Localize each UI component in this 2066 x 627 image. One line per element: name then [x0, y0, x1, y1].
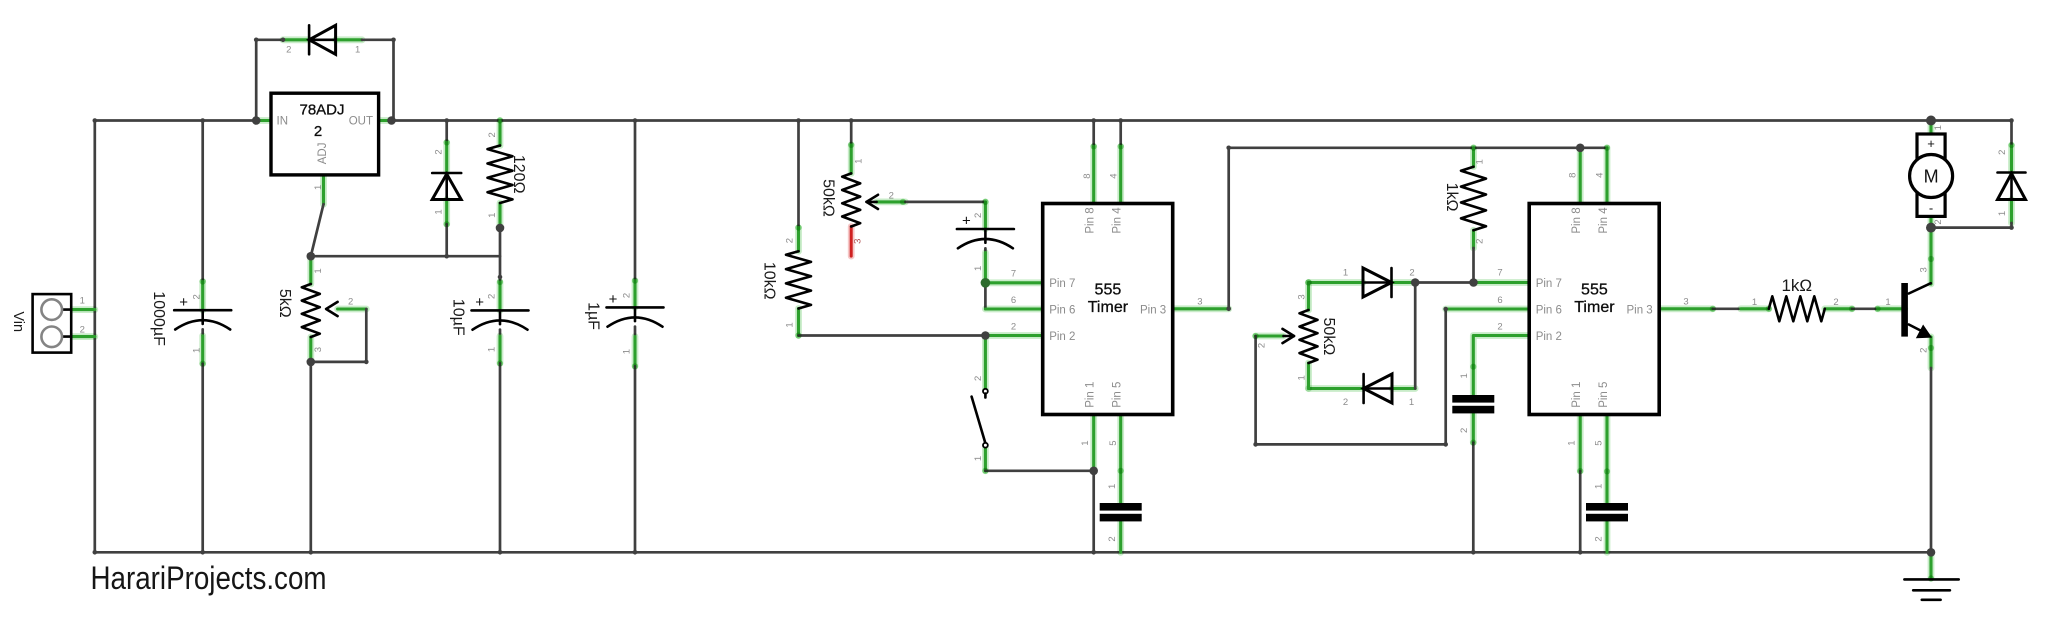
svg-text:2: 2 — [1343, 397, 1348, 408]
wire — [307, 337, 314, 362]
svg-text:1: 1 — [487, 213, 498, 218]
svg-text:50kΩ: 50kΩ — [819, 179, 836, 217]
wire — [1229, 146, 1607, 149]
wire — [392, 119, 1932, 122]
wire — [984, 248, 987, 252]
svg-text:1: 1 — [434, 209, 445, 214]
wire — [1928, 228, 1935, 284]
svg-text:2: 2 — [286, 45, 291, 56]
wire — [71, 306, 95, 313]
svg-text:1000µF: 1000µF — [150, 291, 167, 346]
IC U3 555 Timer — [1497, 173, 1688, 446]
wire — [1305, 283, 1312, 311]
wire — [1117, 146, 1124, 203]
wire — [445, 224, 448, 256]
wire — [1474, 279, 1530, 286]
svg-text:-: - — [1929, 201, 1933, 216]
junction — [633, 118, 638, 123]
svg-text:1: 1 — [355, 45, 360, 56]
svg-text:2: 2 — [973, 376, 984, 381]
wire — [1446, 306, 1530, 313]
svg-text:OUT: OUT — [349, 115, 373, 127]
wire — [1256, 333, 1283, 340]
svg-text:4: 4 — [1594, 173, 1605, 178]
potentiometer RV1 5kΩ — [276, 268, 353, 352]
junction — [1927, 548, 1936, 557]
junction — [254, 38, 259, 43]
diode D3 — [1343, 267, 1415, 297]
wire — [1604, 521, 1611, 552]
switch S1 — [972, 376, 988, 461]
wire — [256, 40, 283, 121]
wire — [1878, 305, 1902, 312]
junction — [387, 116, 396, 125]
svg-text:M: M — [1924, 167, 1939, 187]
svg-text:+: + — [179, 294, 188, 311]
svg-text:1: 1 — [621, 349, 632, 354]
svg-text:2: 2 — [80, 324, 85, 335]
wire — [201, 329, 204, 335]
svg-text:1: 1 — [973, 456, 984, 461]
wire — [307, 256, 314, 284]
transistor Q1 — [1885, 267, 1930, 353]
wire — [634, 327, 637, 337]
svg-text:+: + — [962, 213, 971, 230]
junction — [93, 118, 98, 123]
svg-text:1: 1 — [1933, 125, 1944, 130]
svg-text:1: 1 — [1107, 484, 1118, 489]
svg-text:IN: IN — [277, 115, 289, 127]
svg-text:Pin 6: Pin 6 — [1536, 304, 1562, 316]
svg-text:6: 6 — [1011, 295, 1016, 306]
wire — [1309, 279, 1364, 286]
svg-text:+: + — [1927, 136, 1935, 151]
junction — [1253, 442, 1258, 447]
svg-text:Pin 4: Pin 4 — [1112, 207, 1124, 234]
IC U2 555 Timer — [1011, 173, 1203, 445]
wire — [199, 336, 206, 364]
junction — [796, 118, 801, 123]
svg-text:1: 1 — [784, 322, 795, 327]
svg-text:2: 2 — [487, 132, 498, 137]
regulator U1 78ADJ — [271, 93, 379, 190]
wire — [634, 366, 637, 552]
svg-text:1: 1 — [1752, 297, 1757, 308]
wire — [1090, 415, 1097, 471]
junction — [1443, 307, 1448, 312]
svg-text:1: 1 — [1409, 397, 1414, 408]
junction — [307, 252, 316, 261]
svg-text:1kΩ: 1kΩ — [1781, 276, 1812, 295]
svg-text:555: 555 — [1581, 281, 1608, 298]
svg-text:2: 2 — [348, 297, 353, 308]
svg-text:+: + — [609, 291, 618, 308]
svg-text:3: 3 — [1297, 294, 1308, 299]
wire — [1173, 305, 1229, 312]
svg-text:78ADJ: 78ADJ — [299, 102, 344, 119]
wire — [1470, 230, 1477, 248]
svg-text:50kΩ: 50kΩ — [1320, 318, 1337, 356]
wire — [850, 121, 853, 145]
wire — [799, 334, 986, 337]
wire — [982, 447, 989, 471]
junction — [981, 278, 991, 288]
wire — [1415, 281, 1473, 284]
junction — [200, 550, 205, 555]
junction — [1226, 307, 1231, 312]
svg-text:Pin 2: Pin 2 — [1049, 331, 1075, 343]
ground — [1904, 579, 1958, 599]
wire — [201, 121, 204, 282]
wire — [256, 117, 271, 124]
wire — [985, 332, 1042, 339]
svg-text:1: 1 — [973, 266, 984, 271]
svg-text:5kΩ: 5kΩ — [276, 289, 293, 318]
svg-text:2: 2 — [1256, 343, 1267, 348]
svg-text:Pin 1: Pin 1 — [1085, 382, 1097, 408]
svg-text:Pin 2: Pin 2 — [1536, 331, 1562, 343]
junction — [1471, 550, 1476, 555]
junction — [1226, 146, 1231, 151]
svg-text:2: 2 — [1475, 239, 1486, 244]
wire — [283, 36, 309, 43]
wire — [1117, 415, 1124, 504]
svg-text:1: 1 — [1080, 440, 1091, 445]
svg-text:1: 1 — [853, 159, 864, 164]
svg-text:7: 7 — [1497, 267, 1502, 278]
resistor R2 10kΩ — [760, 238, 811, 328]
wire — [1579, 471, 1582, 552]
svg-text:2: 2 — [1409, 267, 1414, 278]
svg-text:120Ω: 120Ω — [510, 155, 527, 194]
svg-text:2: 2 — [486, 294, 497, 299]
wire — [795, 309, 802, 336]
svg-text:2: 2 — [621, 293, 632, 298]
svg-text:2: 2 — [314, 123, 322, 140]
svg-text:3: 3 — [1919, 267, 1930, 272]
wire — [1305, 363, 1312, 389]
wire — [309, 362, 312, 552]
diode D4 — [1343, 374, 1414, 408]
wire — [982, 202, 989, 229]
resistor R3 1kΩ — [1443, 159, 1486, 244]
wire — [338, 306, 367, 313]
svg-text:Pin 7: Pin 7 — [1049, 278, 1075, 290]
wire — [379, 117, 392, 124]
svg-text:1: 1 — [1343, 267, 1348, 278]
svg-text:10kΩ: 10kΩ — [760, 262, 777, 300]
wire — [445, 121, 448, 143]
potentiometer RV3 50kΩ — [1256, 294, 1337, 380]
wire — [1470, 148, 1477, 167]
svg-text:2: 2 — [889, 191, 894, 202]
svg-text:Pin 8: Pin 8 — [1571, 207, 1583, 233]
svg-text:2: 2 — [1459, 428, 1470, 433]
capacitor C6 — [1452, 373, 1494, 433]
label HarariProjects.com — [91, 560, 327, 596]
potentiometer RV2 50kΩ — [819, 159, 894, 244]
wire — [632, 281, 639, 308]
svg-text:1: 1 — [1885, 297, 1890, 308]
wire — [1256, 309, 1446, 444]
junction — [1411, 278, 1420, 287]
svg-text:4: 4 — [1109, 173, 1120, 178]
svg-text:Pin 7: Pin 7 — [1536, 278, 1562, 290]
wire — [795, 228, 802, 252]
wire — [311, 255, 500, 258]
capacitor C2 10µF — [450, 294, 529, 352]
wire — [1472, 443, 1475, 553]
svg-text:1kΩ: 1kΩ — [1443, 183, 1460, 212]
svg-text:5: 5 — [1593, 440, 1604, 445]
wire — [1470, 413, 1477, 442]
svg-text:2: 2 — [434, 149, 445, 154]
svg-text:6: 6 — [1497, 295, 1502, 306]
svg-text:Timer: Timer — [1088, 299, 1129, 316]
resistor R1 120Ω — [487, 132, 527, 218]
svg-text:Pin 8: Pin 8 — [1085, 207, 1097, 233]
svg-text:1: 1 — [313, 268, 324, 273]
junction — [633, 550, 638, 555]
wire — [2008, 146, 2015, 173]
wire — [1928, 121, 1935, 134]
wire — [1659, 305, 1713, 312]
junction — [309, 550, 314, 555]
junction — [391, 38, 396, 43]
svg-text:1: 1 — [1567, 440, 1578, 445]
svg-text:2: 2 — [1933, 219, 1944, 224]
svg-text:1: 1 — [1997, 211, 2008, 216]
wire — [1604, 415, 1611, 504]
svg-text:8: 8 — [1082, 173, 1093, 178]
junction — [1091, 118, 1096, 123]
wire — [985, 469, 1093, 472]
svg-text:1: 1 — [1459, 373, 1470, 378]
diode D2 — [432, 149, 461, 214]
wire — [497, 203, 504, 228]
svg-text:1µF: 1µF — [584, 302, 601, 330]
wire — [1473, 336, 1529, 396]
wire — [499, 330, 502, 336]
wire — [982, 336, 989, 389]
svg-text:3: 3 — [313, 347, 324, 352]
svg-text:2: 2 — [1107, 536, 1118, 541]
diode D1 — [286, 25, 360, 55]
wire — [984, 283, 987, 309]
junction — [498, 275, 503, 280]
svg-text:10µF: 10µF — [450, 299, 467, 336]
wire — [336, 36, 362, 43]
wire — [985, 279, 1042, 286]
junction — [2009, 118, 2014, 123]
junction — [281, 38, 286, 43]
svg-text:2: 2 — [784, 238, 795, 243]
junction — [1578, 550, 1583, 555]
junction — [2009, 225, 2014, 230]
svg-text:Pin 1: Pin 1 — [1571, 382, 1583, 408]
wire — [848, 227, 855, 257]
svg-text:2: 2 — [1833, 297, 1838, 308]
wire — [1392, 279, 1416, 286]
wire — [985, 306, 1042, 313]
svg-text:555: 555 — [1095, 281, 1122, 298]
wire — [1930, 368, 1933, 552]
junction — [1469, 278, 1478, 287]
svg-text:1: 1 — [1594, 484, 1605, 489]
svg-text:1: 1 — [486, 347, 497, 352]
wire — [1092, 121, 1095, 147]
svg-text:7: 7 — [1011, 269, 1016, 280]
wire — [1741, 305, 1769, 312]
svg-text:Pin 3: Pin 3 — [1140, 304, 1166, 316]
wire — [905, 201, 985, 204]
wire — [797, 121, 800, 228]
junction — [444, 254, 449, 259]
svg-text:Pin 5: Pin 5 — [1112, 382, 1124, 408]
junction — [364, 360, 369, 365]
wire endpoint highlights — [200, 117, 2015, 581]
wire — [982, 253, 989, 283]
capacitor C1 1000µF — [150, 291, 231, 353]
junction — [93, 550, 98, 555]
wire — [95, 119, 256, 122]
motor M1 — [1910, 125, 1953, 225]
junction — [444, 118, 449, 123]
svg-text:2: 2 — [1011, 321, 1016, 332]
connector J1 Vin — [10, 294, 85, 353]
junction — [498, 550, 503, 555]
junction — [200, 118, 205, 123]
junction — [981, 331, 990, 340]
svg-text:1: 1 — [313, 185, 324, 190]
svg-text:1: 1 — [1297, 375, 1308, 380]
svg-text:Timer: Timer — [1574, 299, 1615, 316]
wire — [1309, 385, 1364, 392]
wire — [71, 333, 95, 340]
junction — [1576, 144, 1585, 153]
wire — [311, 309, 367, 362]
junction — [307, 358, 316, 367]
svg-text:2: 2 — [191, 294, 202, 299]
svg-text:+: + — [475, 294, 484, 311]
wire — [199, 282, 206, 311]
wire — [1119, 121, 1122, 147]
capacitor C5 — [1100, 484, 1142, 542]
junction — [1089, 467, 1098, 476]
svg-text:3: 3 — [852, 239, 863, 244]
wire — [497, 121, 504, 146]
wire — [443, 200, 450, 225]
wire — [1928, 337, 1935, 368]
junction — [1443, 442, 1448, 447]
wire — [1852, 307, 1878, 310]
svg-text:1: 1 — [80, 295, 85, 306]
svg-text:2: 2 — [1997, 150, 2008, 155]
junction — [1091, 550, 1096, 555]
capacitor C4 — [957, 213, 1014, 271]
svg-text:Pin 3: Pin 3 — [1626, 304, 1652, 316]
wire — [1577, 415, 1584, 472]
wire — [95, 551, 1931, 554]
wire — [497, 282, 504, 310]
svg-text:Pin 6: Pin 6 — [1049, 304, 1075, 316]
wire — [1092, 471, 1095, 553]
junction — [849, 118, 854, 123]
capacitor C7 — [1586, 484, 1628, 542]
wire — [499, 363, 502, 552]
svg-text:ADJ: ADJ — [317, 143, 329, 165]
capacitor C3 1µF — [584, 291, 663, 354]
wire — [1931, 121, 2012, 146]
wire — [443, 142, 450, 173]
wire — [1414, 283, 1417, 389]
svg-text:3: 3 — [1683, 297, 1688, 308]
wire — [362, 40, 394, 121]
wire — [1117, 521, 1124, 552]
wire — [499, 228, 502, 282]
svg-text:Pin 4: Pin 4 — [1598, 207, 1610, 234]
svg-text:HarariProjects.com: HarariProjects.com — [91, 560, 327, 596]
wire — [311, 204, 324, 256]
wire — [1825, 305, 1852, 312]
wire — [320, 175, 327, 204]
wire — [93, 121, 96, 553]
svg-text:1: 1 — [191, 348, 202, 353]
junction — [1926, 116, 1936, 126]
wire — [1713, 307, 1741, 310]
diode D5 — [1997, 150, 2025, 217]
resistor R4 1kΩ — [1752, 276, 1839, 321]
svg-text:8: 8 — [1568, 173, 1579, 178]
junction — [1926, 223, 1936, 233]
svg-text:3: 3 — [1197, 297, 1202, 308]
wire — [1577, 148, 1584, 204]
junction — [1118, 118, 1123, 123]
wire — [2008, 200, 2015, 224]
svg-text:2: 2 — [1497, 321, 1502, 332]
wire — [1392, 385, 1415, 392]
wire — [877, 198, 906, 205]
svg-text:1: 1 — [1475, 159, 1486, 164]
wire — [634, 121, 637, 281]
junction — [496, 224, 505, 233]
wire — [1604, 148, 1611, 204]
wire — [1090, 146, 1097, 203]
wire — [1928, 552, 1935, 578]
wire — [201, 364, 204, 553]
svg-text:5: 5 — [1108, 440, 1119, 445]
svg-text:Vin: Vin — [10, 311, 26, 332]
svg-text:2: 2 — [973, 213, 984, 218]
svg-text:2: 2 — [1594, 536, 1605, 541]
wire — [497, 336, 504, 363]
wire — [848, 145, 855, 174]
wire — [1928, 214, 1935, 228]
wire — [1227, 148, 1230, 309]
wire — [1472, 248, 1475, 283]
junction — [252, 116, 261, 125]
wire — [632, 337, 639, 367]
svg-text:Pin 5: Pin 5 — [1598, 382, 1610, 408]
wire — [1931, 223, 2012, 228]
